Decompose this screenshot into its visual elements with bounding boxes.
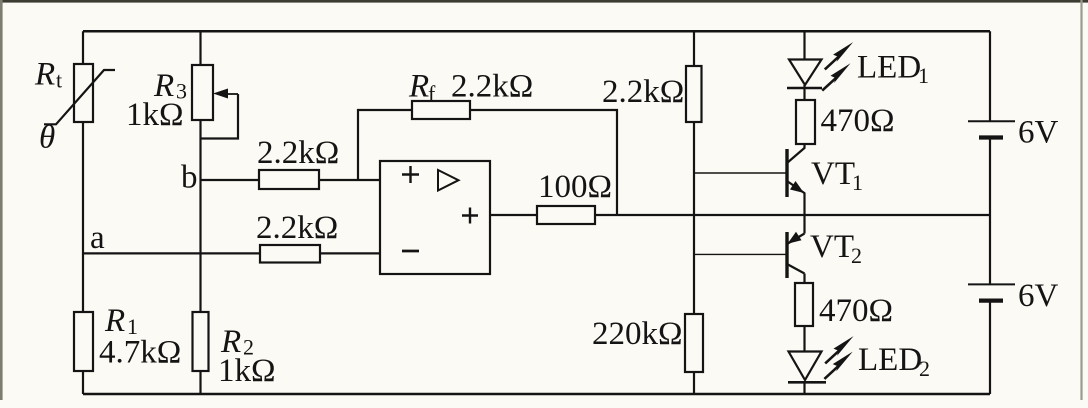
wire: VT2 emitter from mid rail [803,215,805,234]
label 100 ohm [538,169,612,205]
transistor VT2 [787,232,805,278]
resistor 100 ohm [537,206,595,224]
svg-text:LED: LED [858,342,922,378]
svg-text:a: a [90,220,105,256]
wire: feedback path Rf [358,110,617,215]
resistor R2 [193,312,209,371]
label 2.2k vertical [602,74,684,110]
svg-text:VT: VT [811,156,855,192]
svg-text:100Ω: 100Ω [538,169,612,205]
svg-text:6V: 6V [1018,115,1059,151]
node a [90,220,105,256]
wire: LED1 branch vertical [803,31,805,148]
svg-text:2.2kΩ: 2.2kΩ [451,69,533,105]
thermistor Rt [44,64,115,124]
LED1 [787,60,822,89]
wire: R3 wiper connection [201,94,239,139]
label 2.2k top input [257,135,339,171]
battery B1 6V [968,121,1015,137]
label 220k [592,316,683,352]
svg-text:2: 2 [851,243,862,268]
svg-text:θ: θ [39,120,55,156]
svg-text:2.2kΩ: 2.2kΩ [256,210,338,246]
wire: left branch vertical (Rt / R1) [82,31,84,394]
transistor VT1 [787,148,805,198]
wire: op-amp output line through 100 ohm to mid rail [490,214,990,216]
svg-text:220kΩ: 220kΩ [592,316,683,352]
label 2.2k bottom input [256,210,338,246]
resistor 470 ohm (top) [796,100,815,144]
wire: R3 / R2 branch vertical [199,31,201,394]
LED2 [788,352,826,383]
wire: bottom supply rail [83,393,990,396]
resistor Rf [412,101,470,119]
LED2 light arrows [824,336,853,379]
label 6V top [1018,115,1059,151]
potentiometer R3 [192,65,238,120]
label Rt [34,57,62,93]
svg-text:b: b [181,160,198,196]
resistor 2.2k (base pull-up) [686,66,702,122]
wire: right rail between batteries [989,139,991,284]
svg-text:R: R [34,57,55,93]
svg-text:4.7kΩ: 4.7kΩ [99,335,181,371]
wire: right rail top segment [989,31,991,121]
label R1 4.7k [99,303,181,371]
resistor 470 ohm (bottom) [795,283,813,326]
label 470 top [821,103,895,139]
wire: VT1 base line [694,172,786,174]
svg-text:470Ω: 470Ω [821,103,895,139]
label VT2 [810,229,862,268]
resistor R1 [74,312,93,371]
svg-text:1kΩ: 1kΩ [218,353,276,389]
node b [181,160,198,196]
svg-text:R: R [408,69,429,105]
label Rf 2.2k [408,69,533,107]
svg-text:2.2kΩ: 2.2kΩ [602,74,684,110]
svg-text:2: 2 [919,356,930,381]
wire: LED2 branch vertical [803,326,805,394]
label R2 1k [218,324,276,389]
wire: node a line to op-amp - input [83,252,381,254]
wire: VT2 collector to 470 ohm [803,274,805,284]
resistor 2.2k (to + input) [259,170,319,189]
svg-text:VT: VT [810,229,854,265]
wire: base divider vertical (2.2k / 220k) [693,31,695,394]
op-amp U1 [380,161,490,274]
wire: VT1 emitter to mid rail [803,193,805,215]
wire: node b line to op-amp + input [201,179,382,181]
wire: right rail bottom segment [989,302,991,395]
resistor 220k [685,314,703,372]
label theta [39,120,55,156]
svg-text:470Ω: 470Ω [819,293,893,329]
wire: top supply rail [83,30,990,33]
svg-text:LED: LED [857,50,921,86]
svg-text:6V: 6V [1018,278,1059,314]
label 470 bottom [819,293,893,329]
svg-text:1: 1 [918,63,929,88]
svg-text:2.2kΩ: 2.2kΩ [257,135,339,171]
label VT1 [811,156,863,195]
label LED1 [857,50,929,89]
label LED2 [858,342,930,381]
svg-text:1kΩ: 1kΩ [126,97,184,133]
svg-text:f: f [428,81,436,106]
label 6V bottom [1018,278,1059,314]
label R3 1k [126,68,187,133]
wire: VT2 base line [694,253,786,255]
battery B2 6V [968,284,1015,300]
resistor 2.2k (to - input) [260,245,320,263]
svg-text:1: 1 [852,170,863,195]
LED1 light arrows [822,42,853,91]
svg-text:t: t [56,68,62,93]
